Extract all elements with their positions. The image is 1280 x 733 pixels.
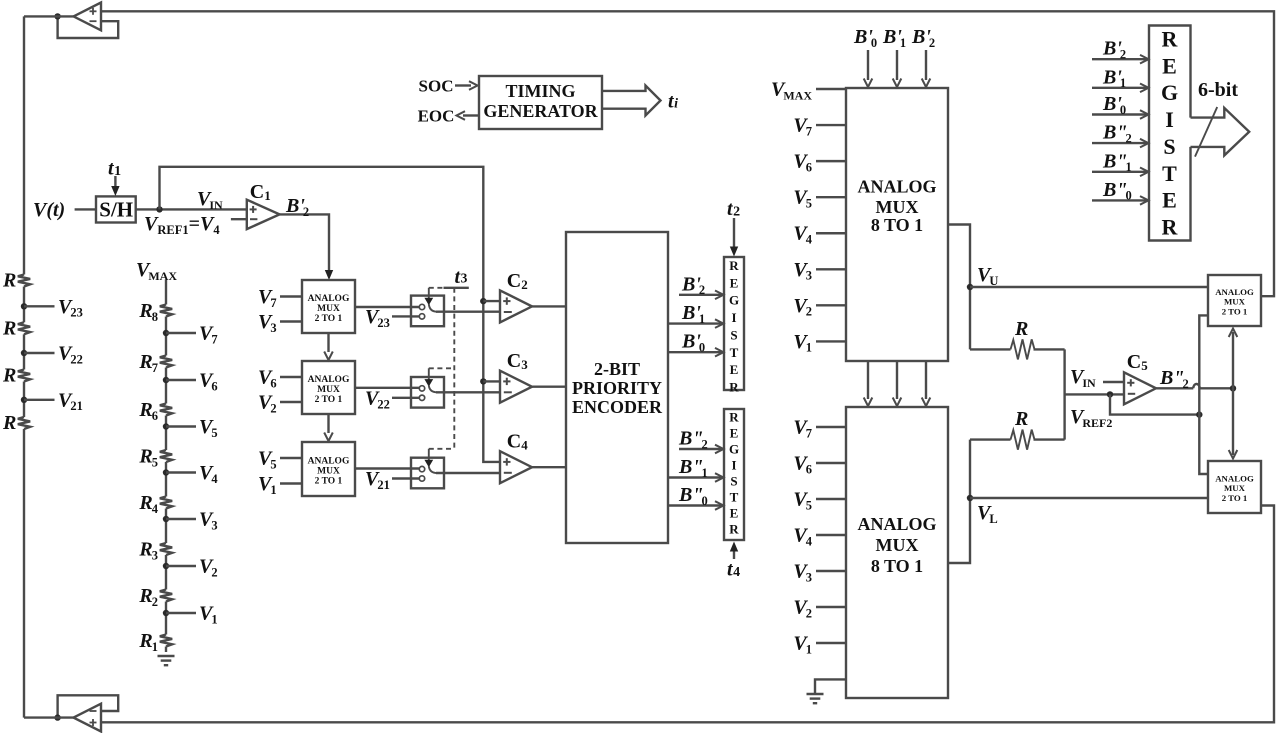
wire: mux cascade arrow 2	[327, 414, 329, 433]
wire: mux3 output to switch	[355, 387, 419, 389]
wire: VL line	[970, 497, 1208, 499]
ground (main ladder)	[158, 655, 175, 657]
wire: V6 stub (lower mux)	[816, 462, 846, 464]
wire: SOC arrow	[455, 84, 471, 86]
svg-text:B"2: B"2	[1159, 367, 1189, 391]
svg-text:5: 5	[1141, 358, 1148, 373]
svg-text:ENCODER: ENCODER	[572, 397, 663, 417]
wire: t3 dashed control 2	[429, 367, 455, 369]
wire: V6 stub (upper mux)	[816, 160, 846, 162]
wire: C2 output	[532, 305, 566, 307]
svg-text:V(t): V(t)	[33, 199, 65, 221]
svg-text:6-bit: 6-bit	[1198, 79, 1238, 101]
wire: V2 stub (lower mux)	[816, 606, 846, 608]
wire: B&#34;0 to output register	[1092, 199, 1147, 201]
svg-text:T: T	[730, 490, 739, 505]
svg-text:G: G	[1161, 80, 1178, 105]
wire: t4 clock arrow	[733, 549, 735, 559]
wire: V7 stub (upper mux)	[816, 124, 846, 126]
svg-text:ANALOG: ANALOG	[308, 375, 350, 385]
svg-text:B"2: B"2	[678, 428, 708, 452]
switch S3	[411, 458, 444, 489]
wire: VIN riser to comparators	[160, 167, 501, 462]
svg-text:3: 3	[521, 357, 528, 372]
svg-text:R: R	[2, 365, 16, 387]
comparator C2	[500, 290, 532, 322]
wire: B''2 output of C5	[1156, 387, 1193, 389]
node V5 tap	[163, 423, 169, 429]
resistor R (left ladder #2)	[18, 322, 30, 334]
svg-text:C: C	[1127, 351, 1141, 373]
svg-text:2: 2	[521, 277, 528, 292]
svg-text:PRIORITY: PRIORITY	[572, 378, 662, 398]
node V23 tap	[21, 303, 27, 309]
wire: C1 output B'2 to mux select	[280, 214, 329, 271]
svg-text:E: E	[730, 275, 739, 290]
svg-text:ANALOG: ANALOG	[857, 514, 936, 534]
svg-text:MUX: MUX	[876, 535, 919, 555]
svg-text:TIMING: TIMING	[505, 81, 575, 101]
register U7 (B'' bits)	[724, 409, 744, 540]
svg-text:G: G	[729, 293, 739, 308]
resistor R (upper divider)	[970, 348, 1011, 350]
wire: A1 feedback loop	[58, 16, 119, 38]
op-amp buffer A2 (bottom-left)	[74, 704, 102, 732]
wire: B&#39;0 to output register	[1092, 113, 1147, 115]
svg-text:4: 4	[521, 438, 528, 453]
svg-text:C: C	[507, 270, 521, 292]
node: VREF2 junction	[1107, 391, 1113, 397]
node VU	[967, 284, 973, 290]
resistor R (left ladder #3)	[18, 370, 30, 382]
wire: B''2 to register	[679, 448, 722, 450]
svg-text:GENERATOR: GENERATOR	[483, 101, 598, 121]
svg-text:R: R	[1162, 214, 1179, 239]
resistor R8	[160, 305, 172, 317]
wire: t1 clock arrow	[114, 176, 116, 187]
ground (lower mux)	[807, 693, 824, 695]
svg-text:E: E	[1162, 188, 1177, 213]
comparator C3	[500, 371, 532, 403]
wire: V1 stub (upper mux)	[816, 340, 846, 342]
svg-text:C: C	[507, 350, 521, 372]
svg-text:8 TO 1: 8 TO 1	[871, 556, 923, 576]
wire: switch S3 wiper	[428, 449, 430, 461]
timing generator U13	[479, 76, 602, 129]
wire: VIN stub (C5)	[1103, 381, 1124, 383]
node V1 tap	[163, 610, 169, 616]
svg-text:I: I	[731, 458, 736, 473]
svg-text:2 TO 1: 2 TO 1	[315, 395, 343, 405]
wire: V21 stub	[392, 477, 419, 479]
svg-text:B"1: B"1	[678, 456, 708, 480]
svg-text:C: C	[250, 181, 264, 203]
wire: B&#34;1 to output register	[1092, 171, 1147, 173]
wire: V7 stub (lower mux)	[816, 426, 846, 428]
node: A2 output junction	[54, 714, 60, 720]
analog mux 2to1 U2	[302, 280, 355, 333]
wire: divider mid to C5 minus	[1065, 393, 1124, 395]
node: C3 plus tap	[480, 378, 486, 384]
wire: mux4 output to switch	[355, 467, 419, 469]
bus arrow: 6-bit output	[1191, 108, 1250, 155]
svg-text:E: E	[730, 362, 739, 377]
svg-text:R: R	[729, 522, 739, 537]
wire: V5 stub (upper mux)	[816, 196, 846, 198]
node V7 tap	[163, 330, 169, 336]
wire: B&#39;2 to output register	[1092, 58, 1147, 60]
svg-text:2 TO 1: 2 TO 1	[315, 314, 343, 324]
svg-text:MUX: MUX	[876, 197, 919, 217]
wire: VREF2 to right muxes	[1110, 394, 1197, 414]
switch S1	[411, 296, 444, 327]
wire: B''1 to register	[668, 476, 722, 478]
wire: V22 stub	[392, 397, 419, 399]
node V6 tap	[163, 377, 169, 383]
comparator C5	[1124, 372, 1156, 404]
svg-text:I: I	[731, 310, 736, 325]
wire: B''0 to register	[668, 504, 722, 506]
wire: B'0 to register	[668, 351, 722, 353]
svg-text:MUX: MUX	[317, 467, 340, 477]
svg-text:R: R	[2, 412, 16, 434]
node V3 tap	[163, 516, 169, 522]
node V22 tap	[21, 350, 27, 356]
svg-text:E: E	[730, 506, 739, 521]
resistor R (lower divider)	[970, 438, 1011, 440]
resistor R7	[160, 356, 172, 368]
wire: B'0 select arrow	[867, 50, 869, 80]
svg-text:2 TO 1: 2 TO 1	[315, 477, 343, 487]
wire: EOC arrow	[463, 114, 479, 116]
svg-text:R: R	[2, 270, 16, 292]
comparator C1	[247, 200, 280, 229]
svg-text:S: S	[730, 474, 737, 489]
wire: C3 output	[532, 386, 566, 388]
wire: V4 stub (upper mux)	[816, 232, 846, 234]
wire: bottom feedback rail	[101, 506, 1274, 723]
svg-text:2 TO 1: 2 TO 1	[1222, 306, 1248, 316]
svg-text:B"0: B"0	[678, 484, 708, 508]
wire: top feedback rail	[101, 11, 1274, 296]
wire: upper mux output to VU	[948, 225, 970, 350]
svg-text:S: S	[730, 327, 737, 342]
analog mux 8to1 U9 (lower)	[846, 407, 948, 698]
svg-text:2-BIT: 2-BIT	[594, 359, 640, 379]
svg-text:R: R	[729, 258, 739, 273]
resistor R5	[160, 450, 172, 462]
wire: B'2 to register	[679, 294, 722, 296]
resistor R1	[160, 635, 172, 647]
op-amp buffer A1 (top-left)	[74, 3, 102, 31]
wire: t3 stub	[444, 287, 469, 289]
svg-text:ANALOG: ANALOG	[857, 177, 936, 197]
wire: mux cascade arrow 1	[327, 333, 329, 352]
comparator C4	[500, 451, 532, 483]
wire: V5 stub	[280, 457, 302, 459]
wire: A2 feedback loop	[58, 695, 119, 717]
wire: switch S1 wiper	[428, 288, 430, 299]
node: VIN junction	[156, 206, 162, 212]
wire: VMAX stub (upper mux)	[816, 88, 846, 90]
wire: V6 stub	[280, 376, 302, 378]
wire: A1 output to ladder	[24, 15, 74, 17]
svg-text:ANALOG: ANALOG	[1215, 474, 1254, 484]
svg-text:B"2: B"2	[1102, 122, 1132, 146]
wire: B''2 select double arrow	[1232, 332, 1234, 455]
register U12 (6-bit output)	[1149, 26, 1191, 241]
wire: select pass-through 2	[925, 361, 927, 399]
wire: VU line	[970, 286, 1208, 288]
node: C2 plus tap	[480, 298, 486, 304]
svg-text:2 TO 1: 2 TO 1	[1222, 493, 1248, 503]
wire: switch S1 output to comparator	[436, 311, 500, 313]
wire: A2 output to ladder	[24, 716, 74, 718]
svg-text:E: E	[730, 426, 739, 441]
wire: VREF1 stub	[231, 218, 247, 220]
wire: lower mux ground stub	[815, 679, 846, 693]
svg-text:ANALOG: ANALOG	[1215, 287, 1254, 297]
svg-text:MUX: MUX	[1224, 297, 1246, 307]
svg-text:R: R	[2, 317, 16, 339]
svg-text:R: R	[729, 379, 739, 394]
encoder U5: 2-bit priority encoder	[566, 232, 668, 543]
resistor R2	[160, 590, 172, 602]
wire: V4 stub (lower mux)	[816, 534, 846, 536]
wire: V1 stub (lower mux)	[816, 642, 846, 644]
wire: switch S3 output to comparator	[436, 472, 500, 474]
svg-text:S/H: S/H	[99, 198, 133, 222]
svg-text:C: C	[507, 431, 521, 453]
wire: V5 stub (lower mux)	[816, 498, 846, 500]
resistor R (left ladder #4)	[18, 417, 30, 429]
wire: V(t) to S/H	[75, 208, 96, 210]
wire: lower mux output to VL	[948, 440, 970, 563]
svg-text:S: S	[1163, 134, 1175, 159]
wire: B'1 to register	[668, 322, 722, 324]
wire: mux2 output to switch	[355, 306, 419, 308]
svg-text:G: G	[729, 442, 739, 457]
node V4 tap	[163, 469, 169, 475]
wire: V2 stub	[280, 401, 302, 403]
svg-text:T: T	[1162, 161, 1177, 186]
svg-text:ANALOG: ANALOG	[308, 457, 350, 467]
wire: select pass-through 0	[867, 361, 869, 399]
svg-text:R: R	[1162, 27, 1179, 52]
wire: C4 output	[532, 466, 566, 468]
wire: switch S2 output to comparator	[436, 391, 500, 393]
wire: t2 clock arrow	[733, 218, 735, 248]
sample-hold S/H	[96, 196, 136, 222]
svg-text:R: R	[1014, 408, 1028, 430]
wire: t3 dashed control 3	[429, 448, 455, 450]
resistor R (left ladder #1)	[18, 275, 30, 287]
wire: B'1 select arrow	[896, 50, 898, 80]
analog mux 2to1 U4	[302, 442, 355, 496]
svg-text:T: T	[730, 345, 739, 360]
node: B''2 junction	[1230, 385, 1236, 391]
wire: left ladder rail	[23, 16, 25, 274]
svg-text:MUX: MUX	[1224, 483, 1246, 493]
wire: V3 stub (lower mux)	[816, 570, 846, 572]
resistor R6	[160, 404, 172, 416]
svg-text:EOC: EOC	[418, 107, 455, 126]
wire: V1 stub	[280, 482, 302, 484]
svg-text:R: R	[729, 410, 739, 425]
svg-text:1: 1	[264, 188, 271, 203]
wire: B&#34;2 to output register	[1092, 142, 1147, 144]
node: A1 output junction	[54, 13, 60, 19]
svg-text:E: E	[1162, 53, 1177, 78]
analog mux 8to1 U8 (upper)	[846, 88, 948, 361]
resistor R3	[160, 543, 172, 555]
svg-text:MUX: MUX	[317, 385, 340, 395]
wire: VREF2 bracket	[1199, 315, 1208, 474]
wire: V7 stub	[280, 295, 302, 297]
wire: V2 stub (upper mux)	[816, 304, 846, 306]
node VL	[967, 495, 973, 501]
wire: select pass-through 1	[896, 361, 898, 399]
node V21 tap	[21, 397, 27, 403]
svg-text:I: I	[1165, 107, 1174, 132]
node: VREF2 on bracket	[1196, 411, 1202, 417]
wire: V3 stub (upper mux)	[816, 268, 846, 270]
wire: V3 stub	[280, 320, 302, 322]
wire: B'2 select arrow	[925, 50, 927, 80]
svg-text:MUX: MUX	[317, 304, 340, 314]
analog mux 2to1 U3	[302, 361, 355, 414]
svg-text:R: R	[1014, 318, 1028, 340]
switch S2	[411, 377, 444, 408]
wire: main ladder rail	[165, 280, 167, 305]
wire: t3 dashed control 1	[429, 287, 444, 289]
svg-text:B"0: B"0	[1102, 179, 1132, 203]
wire: t3 dashed trunk	[453, 288, 455, 449]
wire: S/H output to C1	[136, 208, 247, 210]
svg-text:B"1: B"1	[1102, 150, 1132, 174]
register U6 (B' bits)	[724, 257, 744, 390]
svg-text:SOC: SOC	[419, 77, 454, 96]
bus arrow: ti timing outputs	[602, 86, 661, 116]
wire: switch S2 wiper	[428, 368, 430, 380]
wire: V23 stub	[392, 315, 419, 317]
svg-text:ANALOG: ANALOG	[308, 294, 350, 304]
analog mux 2to1 U10 (right upper)	[1208, 275, 1261, 326]
analog mux 2to1 U11 (right lower)	[1208, 461, 1261, 513]
node V2 tap	[163, 563, 169, 569]
svg-text:8 TO 1: 8 TO 1	[871, 215, 923, 235]
wire: divider join	[1063, 349, 1065, 439]
resistor R4	[160, 497, 172, 509]
wire: B&#39;1 to output register	[1092, 87, 1147, 89]
